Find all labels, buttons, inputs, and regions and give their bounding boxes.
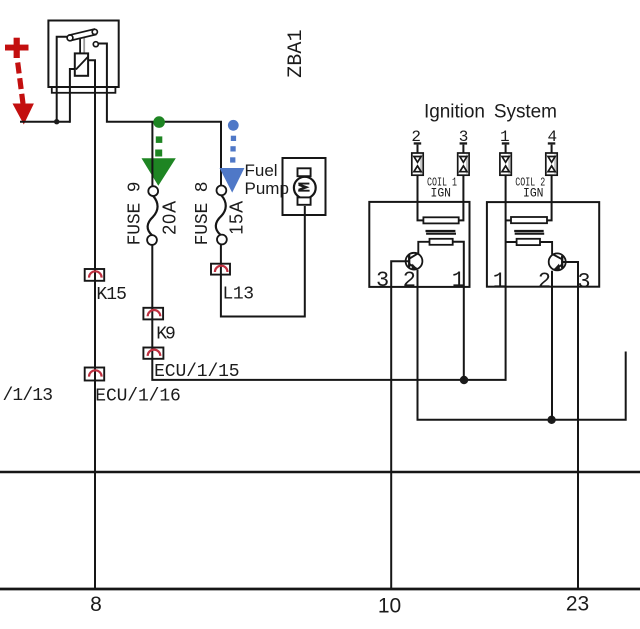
spark plug connector cylinder 3 <box>458 142 469 202</box>
blue arrow marker <box>220 120 245 193</box>
svg-text:10: 10 <box>378 595 401 618</box>
svg-text:IGN: IGN <box>523 186 544 201</box>
wire: coil 2 emitter pin 2 <box>551 271 553 420</box>
relay base flange <box>52 87 116 93</box>
relay K body <box>48 21 118 88</box>
spark plug connector cylinder 1 <box>500 142 511 202</box>
coil 1 secondary winding <box>430 239 453 245</box>
fuel pump motor M <box>294 177 316 199</box>
svg-text:3: 3 <box>577 270 590 295</box>
spark plug connector cylinder 4 <box>546 142 557 202</box>
wire: coil 2 base to pin 3 <box>562 262 578 589</box>
svg-text:FUSE 9: FUSE 9 <box>125 181 145 245</box>
wire: fuse 8 through L13 down and over to pump <box>221 206 305 317</box>
ignition coil 1 module box <box>369 202 469 287</box>
wire: fuse 9 to K9 to ECU/1/15 and across <box>152 202 505 380</box>
svg-text:ZBA1: ZBA1 <box>285 29 308 78</box>
transistor Q1 <box>406 253 423 270</box>
svg-text:FUSE 8: FUSE 8 <box>193 181 213 245</box>
wire: main supply line left segment <box>20 121 70 123</box>
svg-text:8: 8 <box>90 593 102 616</box>
svg-text:K9: K9 <box>156 325 176 345</box>
svg-text:1: 1 <box>500 128 510 146</box>
svg-text:1: 1 <box>493 269 506 294</box>
svg-text:2: 2 <box>403 268 416 293</box>
battery feed dashed arrow <box>18 63 23 104</box>
svg-text:IGN: IGN <box>431 185 452 200</box>
fuse FUSE 9 20A <box>148 186 158 196</box>
svg-text:20A: 20A <box>160 201 180 235</box>
relay actuator stem <box>79 35 81 54</box>
coil 1 core <box>426 230 456 232</box>
relay switch arm <box>69 29 96 40</box>
wire: relay coil left lead <box>70 69 75 123</box>
svg-text:ECU/1/15: ECU/1/15 <box>154 362 240 382</box>
svg-text:K15: K15 <box>96 285 127 305</box>
wire: relay switch common lead <box>57 37 67 121</box>
connector K9 <box>143 308 163 320</box>
fuel pump box <box>283 158 326 215</box>
coil 1 primary winding <box>418 202 424 220</box>
relay coil box <box>75 53 88 75</box>
wire: coil 1 pin 1 lead <box>453 242 464 380</box>
svg-text:Pump: Pump <box>245 179 289 198</box>
ignition coil 2 module box <box>487 202 599 287</box>
svg-text:4: 4 <box>547 128 557 146</box>
wire: coil 1 base to pin 3 <box>391 261 409 589</box>
coil 2 core <box>514 230 544 232</box>
transistor Q2 <box>549 253 566 270</box>
relay NO contact <box>93 42 98 47</box>
svg-text:2: 2 <box>538 269 551 294</box>
svg-text:1: 1 <box>452 268 465 293</box>
svg-text:/1/13: /1/13 <box>3 386 54 406</box>
svg-text:3: 3 <box>376 268 389 293</box>
spark plug connector cylinder 2 <box>412 142 423 202</box>
svg-text:2: 2 <box>411 128 421 146</box>
connector L13 <box>211 264 230 275</box>
svg-text:3: 3 <box>459 128 469 146</box>
wire: relay coil right lead long drop to ECU <box>88 60 95 589</box>
node: junction dot coil 2 pin 2 <box>547 416 555 424</box>
svg-text:Fuel: Fuel <box>245 161 278 180</box>
svg-text:Ignition System: Ignition System <box>424 102 557 123</box>
coil 2 primary winding <box>506 219 511 221</box>
svg-text:23: 23 <box>566 593 589 616</box>
bus line lower <box>0 588 640 591</box>
node: junction dot at relay common <box>54 119 59 124</box>
node: junction dot ECU/1/15 to coil 1 pin 1 <box>460 376 468 384</box>
svg-text:15A: 15A <box>227 201 247 235</box>
svg-text:ECU/1/16: ECU/1/16 <box>95 387 181 407</box>
connector ECU/1/15 <box>143 348 163 359</box>
battery plus symbol <box>5 38 29 58</box>
fuse FUSE 8 15A <box>217 186 227 196</box>
svg-text:L13: L13 <box>223 285 255 305</box>
coil 2 secondary winding <box>517 239 540 245</box>
green arrow marker <box>142 116 176 186</box>
wire: relay output to fuses <box>98 44 221 187</box>
connector ECU/1/16 <box>85 368 105 381</box>
connector K15 <box>85 269 105 281</box>
wire: coil 1 emitter pin 2 <box>418 270 626 420</box>
wire: fuse 9 top lead <box>151 122 153 187</box>
bus line upper <box>0 471 640 473</box>
